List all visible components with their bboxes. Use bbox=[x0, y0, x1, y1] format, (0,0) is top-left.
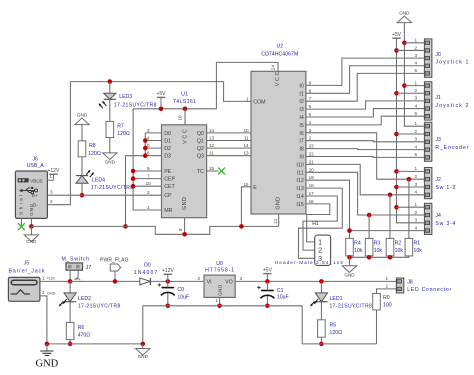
svg-text:J7: J7 bbox=[86, 265, 92, 271]
wire J5 pin1 +12V row bbox=[40, 280, 70, 282]
wire U0 GND pin bbox=[219, 297, 221, 305]
wire R2 tie bbox=[389, 195, 391, 239]
connector J6 USB_A body bbox=[15, 171, 47, 218]
capacitor C1 symbol bbox=[261, 290, 274, 292]
svg-text:2: 2 bbox=[414, 88, 417, 93]
wire +12V row to D0 bbox=[70, 280, 140, 282]
junction GND rail J1.1 bbox=[402, 83, 407, 88]
wire I8 to J3.4 bbox=[306, 149, 425, 150]
wire J0 pin2 bbox=[397, 49, 425, 51]
junction D3 tie bbox=[143, 153, 148, 158]
wire Q2 to U2 S2 bbox=[207, 147, 251, 149]
no-connect X on TC bbox=[218, 168, 225, 175]
wire J8 pin2 to R0 bbox=[377, 289, 397, 294]
wire mid-bus ground stub bbox=[142, 306, 144, 344]
svg-text:USB_A: USB_A bbox=[27, 163, 45, 169]
resistor R7 bbox=[106, 121, 114, 137]
svg-text:GND: GND bbox=[47, 291, 56, 295]
wire J4 pin1 bbox=[397, 206, 425, 208]
ground below R4 bbox=[342, 266, 356, 273]
svg-text:2: 2 bbox=[414, 174, 417, 179]
connector J1 body bbox=[424, 82, 432, 120]
svg-text:13: 13 bbox=[209, 136, 215, 141]
svg-text:11: 11 bbox=[209, 151, 214, 156]
wire I5 to J1.5 bbox=[306, 116, 425, 125]
connector J5 Barrel_Jack body bbox=[8, 277, 40, 301]
svg-text:17-21SUYC/TR8: 17-21SUYC/TR8 bbox=[330, 304, 373, 310]
svg-text:3: 3 bbox=[414, 137, 417, 142]
wire D3 net to ground bus bbox=[125, 156, 127, 227]
svg-text:I8: I8 bbox=[299, 147, 303, 153]
svg-text:I14: I14 bbox=[296, 194, 303, 200]
USB trident icon bbox=[22, 188, 35, 193]
no-connect X on J6 shield bbox=[18, 223, 25, 230]
svg-text:LED Connector: LED Connector bbox=[407, 287, 451, 293]
svg-text:GND: GND bbox=[344, 272, 355, 277]
svg-text:D+: D+ bbox=[32, 193, 38, 198]
svg-text:Joystick 2: Joystick 2 bbox=[435, 103, 468, 109]
svg-text:GND: GND bbox=[29, 203, 34, 216]
wire mid ground bus bbox=[143, 306, 302, 344]
junction J6 GND to bus bbox=[29, 224, 34, 229]
wire CET stub bbox=[133, 185, 161, 187]
junction R6 on bottom bus bbox=[68, 342, 73, 347]
svg-text:Sw 3-4: Sw 3-4 bbox=[435, 221, 455, 227]
junction C1 on mid bus bbox=[265, 304, 270, 309]
wire D0 tie bbox=[145, 132, 161, 134]
svg-text:3: 3 bbox=[414, 218, 417, 223]
LED LED1 bbox=[315, 293, 327, 302]
power symbol +5V above J0 bbox=[392, 37, 400, 39]
wire I9 to J3.5 bbox=[306, 156, 425, 159]
wire Q3 to U2 S3 bbox=[207, 155, 251, 157]
junction +5V stub bbox=[159, 107, 164, 112]
svg-text:C0: C0 bbox=[177, 287, 184, 293]
wire LED1 to R5 bbox=[320, 302, 322, 320]
svg-text:GND: GND bbox=[105, 160, 116, 165]
resistor R6 bbox=[66, 322, 74, 339]
svg-text:16: 16 bbox=[178, 115, 183, 121]
svg-text:16: 16 bbox=[309, 199, 315, 204]
svg-text:9: 9 bbox=[309, 80, 312, 85]
svg-text:6: 6 bbox=[309, 104, 312, 109]
junction R4 bottom bbox=[347, 255, 352, 260]
junction LED4 on D+ wire bbox=[80, 193, 85, 198]
svg-text:C1: C1 bbox=[277, 288, 284, 294]
svg-text:R3: R3 bbox=[374, 241, 381, 247]
svg-text:GND: GND bbox=[26, 239, 37, 244]
svg-text:I7: I7 bbox=[299, 139, 303, 145]
svg-text:J3: J3 bbox=[435, 137, 441, 143]
junction D2 tie bbox=[143, 146, 148, 151]
wire J1 pin2 bbox=[397, 92, 425, 94]
connector J4 body bbox=[424, 203, 432, 234]
wire VO row to J8 pin1 bbox=[235, 280, 396, 282]
wire J2 pin3 bbox=[397, 186, 425, 188]
wire D2 tie bbox=[145, 147, 161, 149]
power flag PWR_FLAG symbol bbox=[110, 264, 120, 281]
svg-text:LED1: LED1 bbox=[330, 296, 343, 302]
wire E pin to ground bus bbox=[241, 187, 251, 227]
svg-text:10k: 10k bbox=[414, 248, 423, 254]
svg-text:5: 5 bbox=[414, 68, 417, 73]
junction CEP bbox=[131, 176, 136, 181]
svg-text:5: 5 bbox=[414, 111, 417, 116]
svg-text:J1: J1 bbox=[435, 95, 441, 101]
junction GND rail J0.1 bbox=[402, 41, 407, 46]
wire I1 to J0.4 bbox=[306, 66, 425, 94]
svg-text:Q3: Q3 bbox=[197, 154, 204, 160]
wire +5V to PE/CEP/CET/MR bbox=[133, 109, 161, 210]
junction mid bus / bottom bus bbox=[141, 342, 146, 347]
wire J1 pin1 bbox=[404, 85, 424, 87]
svg-text:17: 17 bbox=[309, 191, 315, 196]
power symbol +12V above C0 bbox=[164, 273, 172, 275]
wire +5V rail right bbox=[397, 38, 425, 223]
svg-text:GND: GND bbox=[399, 11, 410, 16]
wire +5V rail to U1 and U2 bbox=[133, 62, 278, 108]
svg-text:10: 10 bbox=[146, 181, 152, 186]
junction R3 bottom bbox=[367, 255, 372, 260]
junction J5 GND corner bbox=[45, 342, 50, 347]
svg-text:J5: J5 bbox=[24, 261, 30, 267]
svg-text:CEP: CEP bbox=[164, 177, 175, 183]
LED LED3 bbox=[104, 93, 116, 99]
ground below J6 bbox=[24, 235, 38, 242]
wire C0 top stub bbox=[167, 281, 169, 287]
junction R2 bottom bbox=[388, 255, 393, 260]
svg-text:VO: VO bbox=[225, 280, 233, 286]
wire D+ pin to U1 CP bbox=[47, 194, 161, 196]
svg-text:2: 2 bbox=[42, 290, 45, 295]
wire VBUS pin stub bbox=[47, 179, 53, 181]
wire J3 pin2 bbox=[397, 133, 425, 135]
svg-text:1: 1 bbox=[414, 121, 417, 126]
junction CET bbox=[131, 184, 136, 189]
svg-text:+5V: +5V bbox=[392, 32, 402, 38]
svg-text:5: 5 bbox=[309, 112, 312, 117]
svg-text:U2: U2 bbox=[276, 44, 283, 50]
wire R0 to bottom bus bbox=[376, 310, 378, 344]
power symbol +5V above C1 bbox=[263, 273, 271, 275]
junction D1 tie bbox=[143, 138, 148, 143]
svg-text:D0: D0 bbox=[144, 263, 151, 269]
wire C0 bottom stub bbox=[167, 293, 169, 306]
svg-text:22: 22 bbox=[309, 152, 315, 157]
wire D- net top rail bbox=[70, 82, 251, 102]
wire GND to R8 bbox=[81, 125, 83, 141]
junction D3 net on ground bus bbox=[123, 224, 128, 229]
svg-text:I12: I12 bbox=[296, 178, 303, 184]
switch J7 M_Switch body bbox=[66, 263, 83, 270]
svg-text:8: 8 bbox=[309, 88, 312, 93]
wire I6 to J2.2 bbox=[306, 133, 425, 179]
wire earth stub bbox=[46, 344, 48, 351]
junction R2/J2.4 bbox=[388, 193, 393, 198]
svg-text:VI: VI bbox=[207, 280, 212, 286]
svg-text:I2: I2 bbox=[299, 99, 303, 105]
junction +5V rail J1.2 bbox=[394, 91, 399, 96]
resistor R4 bbox=[346, 238, 354, 256]
svg-text:+5V: +5V bbox=[263, 267, 273, 273]
svg-text:21: 21 bbox=[309, 159, 315, 164]
svg-text:4: 4 bbox=[414, 144, 417, 149]
wire bus to GND symbol bbox=[349, 257, 351, 266]
svg-text:12: 12 bbox=[273, 218, 278, 224]
svg-text:HT7558-1: HT7558-1 bbox=[205, 267, 234, 273]
svg-text:Joystick 1: Joystick 1 bbox=[435, 60, 468, 66]
svg-text:LED2: LED2 bbox=[78, 296, 91, 302]
svg-text:E: E bbox=[253, 185, 257, 191]
svg-text:CD74HC4067M: CD74HC4067M bbox=[261, 51, 298, 57]
svg-text:CP: CP bbox=[164, 193, 172, 199]
svg-text:PE: PE bbox=[164, 169, 172, 175]
power symbol +5V above U1 bbox=[157, 96, 165, 98]
svg-text:7: 7 bbox=[147, 174, 150, 179]
svg-text:1: 1 bbox=[414, 38, 417, 43]
svg-text:R5: R5 bbox=[330, 322, 337, 328]
svg-text:+12V: +12V bbox=[162, 268, 174, 274]
svg-text:Q2: Q2 bbox=[197, 146, 204, 152]
resistor R3 bbox=[365, 238, 373, 256]
svg-text:2: 2 bbox=[414, 45, 417, 50]
svg-text:VCC: VCC bbox=[275, 72, 281, 87]
wire R6 to bottom bus bbox=[69, 340, 71, 344]
svg-text:3: 3 bbox=[414, 96, 417, 101]
wire LED3 anode stub bbox=[109, 82, 111, 94]
svg-text:1: 1 bbox=[414, 166, 417, 171]
svg-text:M_Switch: M_Switch bbox=[62, 256, 90, 262]
IC U1 74LS161 body bbox=[162, 125, 207, 218]
svg-text:GND: GND bbox=[36, 358, 59, 369]
junction PWR_FLAG bbox=[113, 279, 118, 284]
svg-text:J8: J8 bbox=[407, 280, 413, 286]
svg-text:D1: D1 bbox=[164, 139, 171, 145]
junction PE bbox=[131, 169, 136, 174]
svg-text:10k: 10k bbox=[374, 248, 383, 254]
wire R8 to LED4 bbox=[81, 157, 83, 176]
svg-text:I5: I5 bbox=[299, 123, 303, 129]
svg-text:4: 4 bbox=[414, 61, 417, 66]
svg-text:15: 15 bbox=[243, 182, 249, 187]
svg-text:PWR_FLAG: PWR_FLAG bbox=[100, 258, 129, 264]
junction R4/J4.4 bbox=[347, 228, 352, 233]
svg-text:J4: J4 bbox=[435, 213, 441, 219]
wire R1 tie bbox=[408, 179, 410, 238]
svg-text:14: 14 bbox=[243, 143, 249, 148]
LED LED2 bbox=[64, 293, 76, 302]
svg-text:7: 7 bbox=[309, 96, 312, 101]
svg-text:3: 3 bbox=[414, 182, 417, 187]
svg-text:18: 18 bbox=[309, 183, 315, 188]
ground earth symbol bbox=[40, 351, 53, 356]
svg-text:H1: H1 bbox=[312, 221, 319, 227]
svg-text:23: 23 bbox=[309, 144, 315, 149]
svg-text:COM: COM bbox=[253, 99, 265, 105]
svg-text:I4: I4 bbox=[299, 115, 303, 121]
svg-text:D0: D0 bbox=[164, 131, 171, 137]
svg-text:VCC: VCC bbox=[183, 129, 189, 144]
svg-text:20: 20 bbox=[309, 167, 315, 172]
svg-text:19: 19 bbox=[309, 175, 315, 180]
wire I11 to J4.2 bbox=[306, 172, 425, 215]
svg-text:8: 8 bbox=[178, 228, 183, 231]
junction E net on ground bus bbox=[239, 224, 244, 229]
resistor R5 bbox=[318, 320, 326, 337]
svg-text:R_Encoder: R_Encoder bbox=[435, 145, 468, 151]
svg-text:Q0: Q0 bbox=[197, 131, 204, 137]
connector J0 body bbox=[424, 39, 432, 77]
svg-text:4: 4 bbox=[414, 103, 417, 108]
wire I14 to H1.2 bbox=[303, 196, 337, 250]
svg-text:3: 3 bbox=[240, 276, 243, 281]
svg-text:I15: I15 bbox=[296, 202, 303, 208]
wire J6 shield pin stub bbox=[20, 218, 22, 225]
svg-text:U1: U1 bbox=[181, 91, 188, 97]
svg-text:5: 5 bbox=[414, 152, 417, 157]
svg-text:2: 2 bbox=[385, 283, 388, 288]
svg-text:120Ω: 120Ω bbox=[330, 330, 343, 336]
svg-text:Header-Male 2.54_1x3: Header-Male 2.54_1x3 bbox=[275, 260, 343, 266]
svg-text:4: 4 bbox=[414, 225, 417, 230]
junction +12V/C0 bbox=[166, 279, 171, 284]
wire J5 pin2 GND bbox=[40, 296, 47, 344]
svg-text:LED4: LED4 bbox=[92, 177, 105, 183]
junction U0 GND on mid bus bbox=[217, 304, 222, 309]
svg-text:I1: I1 bbox=[299, 91, 303, 97]
svg-text:1: 1 bbox=[42, 275, 45, 280]
svg-text:74LS161: 74LS161 bbox=[173, 99, 196, 105]
ground below R7 bbox=[103, 153, 117, 160]
svg-text:GND: GND bbox=[138, 354, 149, 359]
svg-text:1N4007: 1N4007 bbox=[134, 270, 158, 276]
wire J0 pin1 bbox=[404, 42, 424, 44]
svg-text:10: 10 bbox=[243, 128, 249, 133]
ground above J0 bbox=[397, 16, 411, 23]
wire Q0 to U2 S0 bbox=[207, 132, 251, 134]
svg-text:17-21SUYC/TR8: 17-21SUYC/TR8 bbox=[91, 185, 134, 191]
connector J8 body bbox=[396, 278, 404, 293]
svg-text:I3: I3 bbox=[299, 107, 303, 113]
svg-text:1: 1 bbox=[414, 80, 417, 85]
junction +5V rail J3.2 bbox=[394, 132, 399, 137]
svg-text:12: 12 bbox=[209, 143, 215, 148]
svg-text:I13: I13 bbox=[296, 186, 303, 192]
junction +5V rail J2.1 bbox=[394, 169, 399, 174]
svg-text:I11: I11 bbox=[297, 170, 304, 176]
wire U1 GND pin bbox=[184, 218, 186, 235]
IC U0 HT7558-1 body bbox=[204, 275, 235, 297]
svg-text:I6: I6 bbox=[299, 131, 303, 137]
svg-text:3: 3 bbox=[309, 128, 312, 133]
wire I15 to H1.1 bbox=[306, 204, 330, 242]
svg-text:U0: U0 bbox=[216, 261, 223, 267]
svg-text:14: 14 bbox=[209, 128, 215, 133]
wire CEP stub bbox=[133, 178, 161, 180]
svg-text:GND: GND bbox=[217, 284, 222, 296]
junction LED3 anode on top rail bbox=[108, 79, 113, 84]
wire R3 tie bbox=[368, 215, 370, 238]
svg-text:R2: R2 bbox=[395, 241, 402, 247]
wire U1 VCC pin bbox=[184, 109, 186, 125]
barrel jack icon bbox=[11, 280, 37, 285]
junction +5V rail J4.1 bbox=[394, 205, 399, 210]
junction C0 on mid bus bbox=[166, 304, 171, 309]
ground below bottom bus bbox=[136, 349, 150, 356]
svg-text:2: 2 bbox=[309, 136, 312, 141]
LED LED4 bbox=[76, 176, 88, 184]
wire I4 to J1.4 bbox=[306, 109, 425, 117]
wire I0 to J0.3 bbox=[306, 58, 425, 85]
svg-text:I0: I0 bbox=[299, 83, 303, 89]
svg-text:10k: 10k bbox=[395, 248, 404, 254]
svg-text:2: 2 bbox=[414, 129, 417, 134]
wire D- pin bbox=[47, 82, 70, 205]
junction U1 GND on bus bbox=[182, 232, 187, 237]
wire switch right pin bbox=[77, 270, 79, 277]
wire LED4 anode stub bbox=[81, 183, 83, 195]
wire LED1 anode stub bbox=[320, 281, 322, 293]
svg-text:Sw 1-2: Sw 1-2 bbox=[435, 185, 455, 191]
svg-text:120Ω: 120Ω bbox=[88, 151, 101, 157]
svg-text:I9: I9 bbox=[299, 155, 303, 161]
svg-text:R8: R8 bbox=[89, 143, 96, 149]
svg-text:4: 4 bbox=[414, 190, 417, 195]
svg-text:13: 13 bbox=[243, 151, 249, 156]
wire switch left pin bbox=[69, 270, 71, 281]
wire GND symbol stub at bottom bus bbox=[142, 344, 144, 349]
svg-text:CET: CET bbox=[164, 184, 175, 190]
svg-text:1: 1 bbox=[385, 276, 388, 281]
svg-text:R4: R4 bbox=[354, 241, 361, 247]
wire J4 pin4 row bbox=[350, 230, 425, 232]
wire R7 to GND bbox=[109, 138, 111, 153]
wire I13 to H1.3 bbox=[299, 188, 343, 258]
svg-text:+12v: +12v bbox=[47, 277, 55, 281]
svg-text:3: 3 bbox=[414, 53, 417, 58]
svg-text:R6: R6 bbox=[78, 325, 85, 331]
junction switch/LED2 on +12V row bbox=[68, 279, 73, 284]
wire I2 to J0.5 bbox=[306, 73, 425, 101]
svg-text:GND: GND bbox=[182, 197, 188, 210]
junction R1/J2.2 bbox=[407, 177, 412, 182]
wire R5 to bottom bus bbox=[320, 337, 322, 344]
svg-text:LED3: LED3 bbox=[119, 94, 132, 100]
resistor R2 bbox=[386, 238, 394, 256]
svg-text:GND: GND bbox=[276, 197, 282, 210]
svg-text:R7: R7 bbox=[117, 123, 124, 129]
wire LED2 anode stub bbox=[69, 281, 71, 293]
svg-text:15: 15 bbox=[209, 166, 215, 171]
svg-text:120Ω: 120Ω bbox=[117, 131, 130, 137]
connector J3 body bbox=[424, 122, 432, 161]
diode D0 symbol bbox=[140, 278, 150, 285]
svg-text:J0: J0 bbox=[435, 52, 441, 58]
USB contacts icon bbox=[18, 178, 29, 182]
svg-text:1: 1 bbox=[147, 205, 150, 210]
connector J2 body bbox=[424, 168, 432, 199]
wire J2 pin1 bbox=[397, 170, 425, 172]
svg-text:10uF: 10uF bbox=[277, 295, 289, 301]
svg-text:J6: J6 bbox=[32, 156, 38, 162]
svg-text:I10: I10 bbox=[296, 162, 303, 168]
svg-text:100: 100 bbox=[383, 303, 392, 309]
svg-text:10uF: 10uF bbox=[177, 295, 189, 301]
wire I3 to J1.3 bbox=[306, 101, 425, 109]
junction LED1 anode bbox=[319, 279, 324, 284]
svg-text:470Ω: 470Ω bbox=[78, 333, 91, 339]
svg-text:Q1: Q1 bbox=[197, 139, 204, 145]
